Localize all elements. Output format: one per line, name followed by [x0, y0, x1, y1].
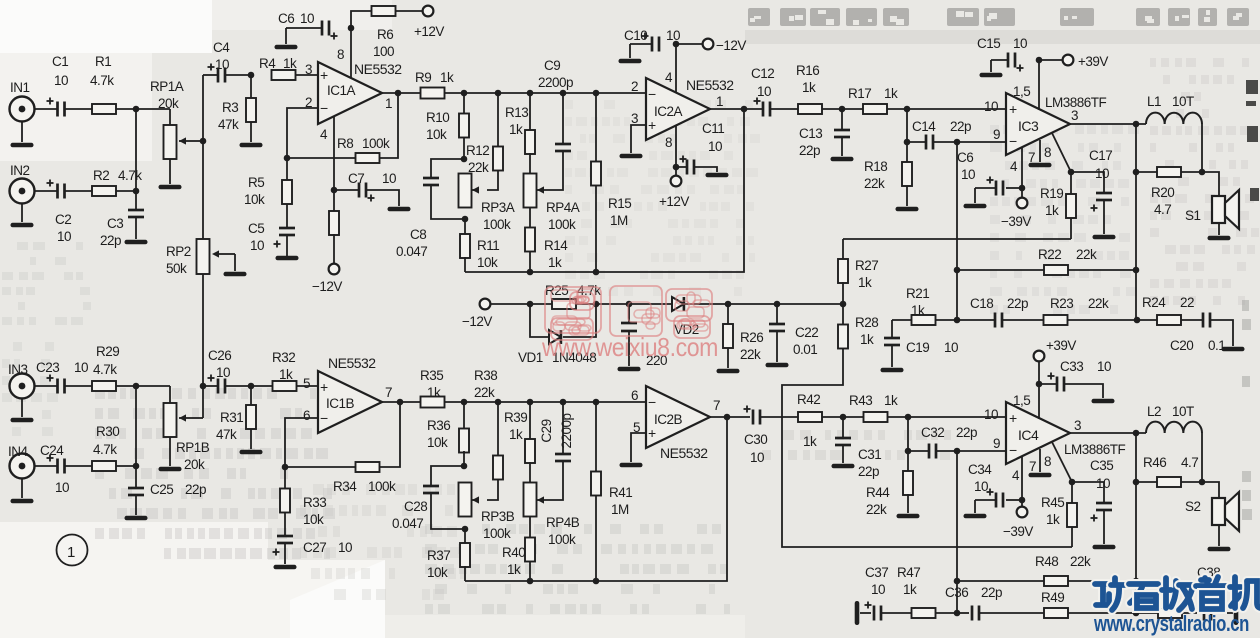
- svg-text:1k: 1k: [1046, 512, 1060, 527]
- svg-text:9: 9: [993, 436, 1000, 451]
- capacitor C37: [860, 565, 888, 621]
- svg-text:−: −: [1009, 442, 1017, 458]
- capacitor C10: [624, 28, 680, 52]
- node i4a: [840, 414, 847, 421]
- svg-text:22k: 22k: [1088, 296, 1109, 311]
- svg-text:−: −: [320, 100, 328, 116]
- svg-text:7: 7: [385, 385, 392, 400]
- node V+1: [1036, 57, 1043, 64]
- capacitor C12: [751, 66, 774, 117]
- wire: [1202, 172, 1219, 196]
- pin 4 label: [665, 70, 673, 85]
- svg-text:R34: R34: [333, 479, 357, 494]
- svg-text:C27: C27: [303, 540, 326, 555]
- pin 5 label: [303, 376, 310, 391]
- pin 2 label: [631, 79, 638, 94]
- svg-text:1k: 1k: [509, 427, 523, 442]
- svg-text:1: 1: [385, 96, 392, 111]
- ground C17: [1093, 235, 1116, 240]
- capacitor C6: [278, 11, 338, 40]
- node fb1d: [1134, 317, 1141, 324]
- resistor R46: [1136, 455, 1202, 487]
- pin 9 label: [993, 436, 1000, 451]
- svg-text:RP3B: RP3B: [481, 509, 515, 524]
- wire: [1201, 433, 1203, 482]
- wire: [334, 190, 399, 206]
- resistor R23: [1044, 296, 1138, 325]
- wire: [382, 401, 646, 403]
- svg-text:4: 4: [1010, 159, 1018, 174]
- svg-text:4.7: 4.7: [1154, 202, 1171, 217]
- potentiometer RP2: [166, 239, 235, 276]
- capacitor C28: [392, 466, 465, 531]
- wire pin3 gnd: [631, 125, 646, 153]
- svg-text:R23: R23: [1050, 296, 1073, 311]
- wire: [382, 92, 646, 94]
- svg-text:10: 10: [1097, 359, 1111, 374]
- resistor R24: [1137, 295, 1194, 325]
- node n93d: [560, 90, 567, 97]
- wire: [1201, 124, 1203, 172]
- potentiometer RP4B: [524, 483, 580, 548]
- node m3: [626, 301, 633, 308]
- capacitor C38: [1182, 565, 1233, 621]
- svg-text:IN3: IN3: [8, 362, 28, 377]
- svg-text:22k: 22k: [474, 385, 495, 400]
- svg-text:0.047: 0.047: [392, 516, 423, 531]
- ground IC2A pin3: [620, 154, 643, 159]
- svg-text:IC1A: IC1A: [327, 83, 356, 98]
- wire: [203, 385, 273, 387]
- capacitor C11: [680, 121, 725, 175]
- ground RP2: [224, 272, 247, 277]
- capacitor C26: [208, 348, 232, 394]
- node fb1a: [954, 267, 961, 274]
- node n402e: [593, 399, 600, 406]
- node out5: [724, 414, 731, 421]
- RCA jack IN1: [10, 80, 35, 142]
- node C14L: [904, 139, 911, 146]
- ground RP1A: [159, 185, 182, 190]
- ground C10: [619, 59, 642, 64]
- node fb1c: [954, 317, 961, 324]
- svg-text:1M: 1M: [611, 502, 629, 517]
- ground S2: [1208, 525, 1231, 551]
- svg-text:22p: 22p: [100, 233, 121, 248]
- resistor R45: [1041, 482, 1077, 547]
- svg-text:R42: R42: [797, 392, 820, 407]
- capacitor C31: [835, 417, 881, 479]
- svg-text:9: 9: [993, 127, 1000, 142]
- svg-text:R3: R3: [222, 100, 238, 115]
- svg-text:R16: R16: [796, 63, 819, 78]
- svg-text:1: 1: [67, 544, 75, 561]
- svg-text:NE5532: NE5532: [328, 355, 376, 371]
- node wiper1: [200, 138, 207, 145]
- capacitor C20: [1170, 313, 1233, 354]
- svg-text:C6: C6: [278, 11, 294, 26]
- svg-text:R30: R30: [96, 424, 119, 439]
- svg-text:10: 10: [708, 139, 722, 154]
- potentiometer RP3A: [459, 174, 515, 233]
- node i4b: [905, 414, 912, 421]
- svg-text:10: 10: [984, 99, 998, 114]
- node out4: [397, 399, 404, 406]
- svg-text:1,5: 1,5: [1013, 393, 1030, 408]
- svg-text:R38: R38: [474, 368, 497, 383]
- svg-text:6: 6: [303, 408, 310, 423]
- wire pin2: [287, 108, 318, 158]
- resistor R44: [866, 471, 913, 517]
- node zobel1: [1133, 169, 1140, 176]
- wire: [35, 465, 58, 467]
- svg-text:L2: L2: [1147, 404, 1161, 419]
- wire pin4: [675, 44, 677, 92]
- resistor R13: [505, 93, 535, 174]
- node C8top: [461, 156, 468, 163]
- svg-text:100k: 100k: [483, 217, 511, 232]
- svg-text:RP1A: RP1A: [150, 79, 184, 94]
- ground C27: [274, 565, 297, 570]
- svg-text:C20: C20: [1170, 338, 1193, 353]
- speaker S2: [1185, 492, 1239, 531]
- svg-text:C24: C24: [40, 443, 64, 458]
- svg-text:6: 6: [631, 388, 638, 403]
- svg-text:47k: 47k: [218, 117, 239, 132]
- svg-text:C26: C26: [208, 348, 231, 363]
- svg-text:+39V: +39V: [1078, 54, 1108, 69]
- wire pin7 gnd b: [1039, 449, 1041, 472]
- diode VD2: [672, 297, 699, 337]
- svg-text:C4: C4: [213, 40, 230, 55]
- svg-text:10: 10: [216, 365, 230, 380]
- pin 9 label: [993, 127, 1000, 142]
- wire mute rail: [490, 303, 843, 305]
- svg-text:10: 10: [871, 582, 885, 597]
- svg-text:4: 4: [665, 70, 673, 85]
- capacitor C7: [348, 171, 396, 202]
- svg-text:+: +: [320, 67, 328, 83]
- svg-text:10k: 10k: [427, 435, 448, 450]
- wire: [296, 74, 319, 76]
- speaker S1: [1185, 190, 1239, 229]
- resistor R31: [216, 386, 256, 449]
- wire pin4: [333, 116, 335, 190]
- power-amp IC4: [1006, 402, 1126, 464]
- capacitor C23: [36, 360, 88, 394]
- pin 5 label: [633, 420, 640, 435]
- pin 2 label: [305, 95, 312, 110]
- node fb2c: [954, 610, 961, 617]
- resistor R36: [427, 402, 469, 466]
- terminal +12V b: [659, 167, 689, 209]
- RCA jack IN2: [10, 163, 35, 222]
- capacitor C18: [957, 296, 1043, 328]
- terminal -12V b: [676, 38, 746, 53]
- op-amp IC2B: [646, 386, 710, 461]
- resistor R40: [502, 516, 535, 581]
- op-amp IC1B: [318, 355, 382, 433]
- resistor R17: [848, 86, 898, 114]
- wire: [822, 416, 863, 418]
- resistor R34: [285, 402, 400, 494]
- node fb2a: [954, 578, 961, 585]
- svg-text:10: 10: [974, 479, 988, 494]
- pin 1,5 label: [1013, 84, 1030, 99]
- pin 10 label: [984, 99, 998, 114]
- resistor R18: [864, 159, 912, 206]
- svg-text:IC2B: IC2B: [654, 412, 683, 427]
- inductor L1: [1146, 94, 1202, 124]
- svg-text:R2: R2: [93, 168, 109, 183]
- wire: [906, 109, 908, 162]
- svg-text:S1: S1: [1185, 208, 1201, 223]
- svg-text:22p: 22p: [1007, 296, 1028, 311]
- wire: [888, 416, 1006, 418]
- svg-text:1k: 1k: [507, 562, 521, 577]
- terminal -39V b: [1003, 507, 1033, 539]
- svg-text:1k: 1k: [911, 303, 925, 318]
- svg-text:47k: 47k: [216, 427, 237, 442]
- svg-text:C32: C32: [921, 425, 944, 440]
- node n402a: [461, 399, 468, 406]
- wire: [822, 108, 863, 110]
- ground IN2: [11, 223, 34, 228]
- node n93e: [593, 90, 600, 97]
- wire: [135, 386, 137, 466]
- node pin9n: [954, 139, 961, 146]
- svg-text:2200p: 2200p: [559, 413, 574, 448]
- ground IC4 pin7: [1029, 473, 1052, 478]
- svg-text:10: 10: [961, 167, 975, 182]
- ground IN3: [11, 418, 34, 423]
- ground R26: [717, 369, 740, 374]
- svg-text:4: 4: [1012, 468, 1020, 483]
- svg-text:8: 8: [1044, 145, 1051, 160]
- svg-text:R44: R44: [866, 485, 890, 500]
- svg-text:R26: R26: [740, 330, 763, 345]
- svg-text:20k: 20k: [158, 96, 179, 111]
- svg-text:7: 7: [1029, 459, 1036, 474]
- svg-text:22p: 22p: [956, 425, 977, 440]
- svg-text:10k: 10k: [427, 565, 448, 580]
- capacitor C15: [977, 36, 1027, 72]
- svg-text:C36: C36: [945, 585, 968, 600]
- svg-text:R46: R46: [1143, 455, 1166, 470]
- ground RP1B: [159, 467, 182, 472]
- node n907: [904, 106, 911, 113]
- resistor R5: [244, 158, 292, 228]
- ground C35: [1093, 545, 1116, 550]
- resistor R19: [1040, 172, 1076, 239]
- node m6: [840, 301, 847, 308]
- ground R18: [896, 207, 919, 212]
- svg-text:10: 10: [338, 540, 352, 555]
- svg-text:R9: R9: [415, 70, 431, 85]
- svg-text:IC1B: IC1B: [326, 396, 355, 411]
- ground R44: [897, 514, 920, 519]
- resistor R12: [466, 93, 503, 190]
- capacitor C8: [396, 159, 465, 259]
- wire: [1039, 384, 1103, 398]
- resistor R2: [92, 168, 142, 196]
- ground C25: [125, 516, 148, 521]
- svg-text:10: 10: [944, 340, 958, 355]
- svg-text:10: 10: [55, 480, 69, 495]
- svg-text:C11: C11: [702, 121, 724, 136]
- svg-text:22k: 22k: [864, 176, 885, 191]
- node C10: [673, 41, 680, 48]
- ground C7: [388, 207, 411, 212]
- resistor R3: [218, 75, 256, 142]
- resistor R47: [881, 565, 957, 618]
- svg-text:−12V: −12V: [716, 38, 746, 53]
- svg-text:1k: 1k: [860, 332, 874, 347]
- svg-text:C28: C28: [404, 499, 427, 514]
- wire feedback1: [465, 109, 744, 275]
- node C4R3: [248, 72, 255, 79]
- wire pin4: [1021, 148, 1023, 197]
- svg-text:C37: C37: [865, 565, 888, 580]
- svg-text:3: 3: [1074, 418, 1081, 433]
- pin 8 label: [1044, 145, 1051, 160]
- svg-text:10: 10: [1096, 476, 1110, 491]
- svg-text:10: 10: [215, 57, 229, 72]
- pin 3 label: [1074, 418, 1081, 433]
- wire: [908, 450, 1006, 452]
- wire fb node down: [956, 142, 958, 320]
- node mute1: [1068, 169, 1075, 176]
- wire: [676, 167, 717, 172]
- resistor R37: [427, 529, 470, 581]
- ground C34: [964, 514, 987, 519]
- wire: [116, 108, 170, 110]
- capacitor C13: [799, 109, 850, 158]
- svg-text:10k: 10k: [477, 255, 498, 270]
- svg-text:R10: R10: [426, 110, 449, 125]
- svg-text:NE5532: NE5532: [686, 77, 734, 93]
- svg-text:−39V: −39V: [1001, 214, 1031, 229]
- svg-text:C1: C1: [52, 54, 68, 69]
- wire: [760, 416, 798, 418]
- svg-text:0.01: 0.01: [793, 342, 817, 357]
- node n402c: [527, 399, 534, 406]
- resistor R41: [591, 402, 632, 581]
- svg-text:10: 10: [1095, 166, 1109, 181]
- capacitor C34: [968, 462, 1003, 508]
- resistor R15: [591, 93, 631, 272]
- svg-text:R32: R32: [272, 350, 295, 365]
- svg-text:4.7k: 4.7k: [93, 362, 117, 377]
- svg-text:10T: 10T: [1172, 404, 1194, 419]
- svg-text:RP4A: RP4A: [546, 200, 580, 215]
- svg-text:22k: 22k: [1076, 247, 1097, 262]
- resistor R39: [504, 402, 535, 483]
- svg-text:−: −: [320, 410, 328, 426]
- resistor R28: [782, 304, 1072, 547]
- resistor R22: [957, 247, 1136, 275]
- svg-text:8: 8: [665, 135, 672, 150]
- resistor R26: [723, 304, 763, 368]
- svg-text:R47: R47: [897, 565, 920, 580]
- terminal +39V a: [1039, 54, 1108, 69]
- capacitor C4: [208, 40, 231, 83]
- svg-text:22p: 22p: [858, 464, 879, 479]
- svg-text:0.047: 0.047: [396, 244, 427, 259]
- capacitor C17: [1071, 148, 1112, 234]
- wire: [65, 465, 92, 467]
- watermark red stamp: [541, 286, 718, 362]
- svg-text:C33: C33: [1060, 359, 1083, 374]
- svg-text:22: 22: [1180, 295, 1194, 310]
- svg-text:IC4: IC4: [1018, 427, 1039, 443]
- capacitor C2: [47, 180, 72, 245]
- node n93c: [527, 90, 534, 97]
- wire mute link: [843, 238, 1071, 240]
- ground C20: [1222, 347, 1245, 352]
- svg-text:+: +: [320, 379, 328, 395]
- svg-text:IN2: IN2: [10, 163, 30, 178]
- pin 4 label: [320, 127, 328, 142]
- svg-text:NE5532: NE5532: [354, 61, 402, 77]
- resistor R14: [525, 207, 568, 272]
- svg-text:C10: C10: [624, 28, 647, 43]
- wire: [202, 386, 204, 418]
- svg-text:1k: 1k: [903, 582, 917, 597]
- svg-text:R20: R20: [1151, 185, 1174, 200]
- svg-text:−: −: [648, 394, 656, 410]
- svg-text:www.weixiu8.com: www.weixiu8.com: [541, 332, 718, 362]
- svg-text:IC2A: IC2A: [654, 104, 683, 119]
- svg-text:5: 5: [303, 376, 310, 391]
- svg-text:+: +: [1009, 101, 1017, 117]
- svg-text:1k: 1k: [884, 86, 898, 101]
- svg-text:LM3886TF: LM3886TF: [1064, 442, 1126, 457]
- svg-text:100k: 100k: [548, 217, 576, 232]
- svg-text:VD1: VD1: [518, 350, 543, 365]
- potentiometer RP3B: [459, 483, 515, 542]
- svg-text:www.crystalradio.cn: www.crystalradio.cn: [1093, 611, 1249, 636]
- svg-text:−: −: [648, 86, 656, 102]
- pin 3 label: [305, 62, 312, 77]
- resistor R29: [92, 344, 119, 391]
- ground C5: [276, 256, 299, 261]
- svg-text:10: 10: [57, 229, 71, 244]
- svg-text:R24: R24: [1142, 295, 1166, 310]
- ground IN4: [11, 499, 34, 504]
- node mute2: [1069, 479, 1076, 486]
- ground C3: [125, 240, 148, 245]
- node n93a: [461, 90, 468, 97]
- capacitor C9: [538, 58, 573, 190]
- ground IC3 pin7: [1029, 163, 1052, 168]
- svg-text:1k: 1k: [427, 385, 441, 400]
- inductor L2: [1146, 404, 1202, 433]
- svg-text:10: 10: [984, 407, 998, 422]
- svg-text:4: 4: [320, 127, 328, 142]
- ground S1: [1208, 223, 1231, 240]
- svg-text:1k: 1k: [279, 367, 293, 382]
- svg-text:8: 8: [337, 47, 344, 62]
- svg-text:R41: R41: [609, 485, 632, 500]
- node fb2: [282, 464, 289, 471]
- wire pin8: [350, 28, 352, 78]
- resistor R16: [796, 63, 822, 114]
- resistor R32: [272, 350, 297, 391]
- capacitor C3: [100, 191, 144, 248]
- svg-text:R12: R12: [466, 143, 489, 158]
- resistor R50: [1136, 608, 1182, 618]
